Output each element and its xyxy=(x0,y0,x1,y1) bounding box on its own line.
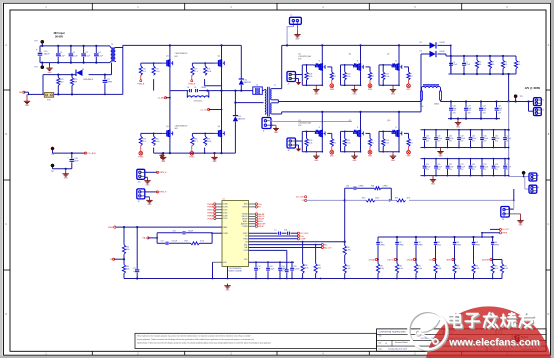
svg-text:PWM_E: PWM_E xyxy=(159,172,167,174)
svg-text:1.00k: 1.00k xyxy=(437,268,441,270)
ground SR1 a xyxy=(313,87,319,95)
svg-text:OPEN: OPEN xyxy=(475,245,481,247)
svg-text:10.0k: 10.0k xyxy=(346,76,350,78)
title block table xyxy=(377,329,547,351)
diode D1 xyxy=(76,69,94,81)
svg-text:BAV21W: BAV21W xyxy=(244,81,251,84)
connector J1 under T1 xyxy=(262,118,274,133)
svg-text:CSD16321Q5A: CSD16321Q5A xyxy=(298,55,311,58)
net label PWM_A xyxy=(137,75,145,85)
svg-text:CONFIDENTIAL NDA REQUIRED: CONFIDENTIAL NDA REQUIRED xyxy=(379,331,407,334)
capacitor C53 100pF xyxy=(266,262,274,278)
capacitor C15 680uF xyxy=(36,46,51,63)
svg-text:J5: J5 xyxy=(290,15,292,17)
ground input section xyxy=(46,63,52,74)
svg-text:SRD: SRD xyxy=(330,156,335,158)
svg-text:GND: GND xyxy=(25,105,30,107)
svg-text:PWM_A: PWM_A xyxy=(137,82,145,85)
wire SR row1 drain rail xyxy=(282,44,430,46)
wire J1 run right xyxy=(273,121,353,123)
wire VDD caps feed xyxy=(249,261,295,263)
svg-text:J8: J8 xyxy=(288,150,290,152)
wire snubber to output rail xyxy=(508,74,510,103)
ground J11 xyxy=(517,214,523,227)
resistor R30 13.3k xyxy=(345,198,392,202)
svg-text:TP5: TP5 xyxy=(520,96,523,98)
wire aux bottom xyxy=(53,168,72,170)
capacitor bank row B C44-C51 xyxy=(421,129,512,149)
svg-text:10.0k: 10.0k xyxy=(207,141,211,143)
disclaimer text box xyxy=(135,333,377,348)
connector J2 output xyxy=(529,98,544,112)
svg-text:10.0k: 10.0k xyxy=(418,268,422,270)
watermark mascot logo xyxy=(408,306,552,363)
svg-text:J10: J10 xyxy=(138,181,141,183)
svg-text:VREF: VREF xyxy=(108,227,114,229)
svg-text:10.0k: 10.0k xyxy=(380,268,384,270)
svg-text:OPEN: OPEN xyxy=(359,185,365,187)
svg-text:36-60V: 36-60V xyxy=(55,35,63,38)
svg-text:10.0k: 10.0k xyxy=(308,142,312,144)
svg-text:C57: C57 xyxy=(161,241,164,243)
svg-text:PWMA: PWMA xyxy=(207,203,214,206)
resistor R76 499 xyxy=(70,75,77,95)
svg-text:C4: C4 xyxy=(98,52,100,54)
wire bridge bottom rail xyxy=(154,152,236,154)
wire EA- with net label xyxy=(249,246,333,249)
capacitor C52 1uF xyxy=(254,262,260,278)
svg-text:www.elecfans.com: www.elecfans.com xyxy=(448,338,540,349)
resistor R4 xyxy=(501,56,507,74)
svg-text:3.2: 3.2 xyxy=(372,142,374,144)
svg-text:C36: C36 xyxy=(346,185,349,187)
svg-text:PWME: PWME xyxy=(207,215,214,217)
wire SS to soft start cap xyxy=(249,250,287,269)
MOSFET Q6 sync rectifier xyxy=(341,45,375,91)
svg-text:OPEN: OPEN xyxy=(380,245,386,247)
ground bridge right xyxy=(211,153,217,163)
wire 12V output rail xyxy=(441,100,533,102)
svg-text:Title: Title xyxy=(379,335,382,338)
svg-text:0.047uF: 0.047uF xyxy=(293,269,299,271)
svg-text:OPEN: OPEN xyxy=(399,245,405,247)
resistor R66 100k xyxy=(122,227,129,260)
svg-text:C24: C24 xyxy=(472,164,475,166)
resistor R75 100 xyxy=(57,75,64,95)
svg-text:1uF: 1uF xyxy=(257,269,260,271)
wire comp run xyxy=(306,199,514,201)
svg-text:US1M: US1M xyxy=(440,42,445,44)
svg-text:100pF: 100pF xyxy=(269,269,274,271)
connector J6 return xyxy=(529,185,539,193)
svg-text:10.0k: 10.0k xyxy=(155,71,159,73)
svg-text:VREF: VREF xyxy=(502,233,508,235)
svg-text:TP7: TP7 xyxy=(51,171,54,173)
svg-text:90.9k: 90.9k xyxy=(304,268,308,270)
svg-text:C20: C20 xyxy=(426,164,429,166)
svg-text:GND: GND xyxy=(295,38,300,40)
MOSFET Q2 with gate network R77 R78 xyxy=(191,45,225,90)
net label SW_AB xyxy=(158,96,171,99)
capacitor C6 4.7uF xyxy=(449,56,457,74)
ground J1 xyxy=(273,125,279,134)
ground J10 xyxy=(144,177,150,186)
svg-text:GND: GND xyxy=(146,185,151,187)
wire T1 pin4 to SR2 rail xyxy=(277,112,282,114)
watermark url text xyxy=(448,338,541,350)
diode D3 xyxy=(420,51,451,58)
resistor R5 xyxy=(514,56,520,74)
svg-text:PWMC: PWMC xyxy=(207,210,214,212)
wire aux top xyxy=(53,152,86,154)
svg-text:BAV21W: BAV21W xyxy=(238,118,245,121)
svg-text:RT: RT xyxy=(245,236,247,238)
wire bridge top rail xyxy=(123,44,242,47)
ground row C xyxy=(430,176,436,186)
wire comp vertical to network xyxy=(344,200,346,245)
svg-text:TP2: TP2 xyxy=(34,66,37,68)
power symbol PGND Q4 xyxy=(189,146,195,159)
watermark text dianzifashaoyou xyxy=(448,313,534,329)
svg-text:GND: GND xyxy=(391,160,396,162)
svg-text:C9: C9 xyxy=(194,87,196,89)
input voltage note xyxy=(53,32,64,38)
wire T1 pin1 to SR rail xyxy=(277,45,282,88)
svg-text:12V_VDD: 12V_VDD xyxy=(296,197,305,199)
svg-text:10.0k: 10.0k xyxy=(207,71,211,73)
resistor R31 49.9 xyxy=(395,198,410,202)
svg-text:PWMF: PWMF xyxy=(207,218,214,220)
svg-text:OPEN: OPEN xyxy=(107,81,113,83)
ground SR1 b xyxy=(351,87,357,95)
connector J10 xyxy=(137,169,158,183)
svg-text:Q6: Q6 xyxy=(349,53,351,55)
svg-text:DCM: DCM xyxy=(244,250,248,252)
svg-text:sw_CD: sw_CD xyxy=(201,109,208,111)
svg-text:470uF: 470uF xyxy=(460,138,465,140)
svg-text:EA_OUT: EA_OUT xyxy=(324,246,332,249)
svg-text:Tuesday, March 26, 2013: Tuesday, March 26, 2013 xyxy=(388,348,407,351)
wire input top rail xyxy=(40,45,110,47)
network column C61/R48 xyxy=(388,237,405,279)
svg-text:12V_AUX: 12V_AUX xyxy=(87,152,96,155)
wire bridge mid rail node A xyxy=(170,90,253,92)
svg-text:D2: D2 xyxy=(420,42,422,44)
svg-text:UVT14124: UVT14124 xyxy=(194,100,203,102)
net label VREF left xyxy=(108,226,116,229)
svg-text:100k: 100k xyxy=(126,249,130,251)
svg-text:C26: C26 xyxy=(495,164,498,166)
net label PWM_E xyxy=(156,171,167,174)
svg-text:GND: GND xyxy=(353,93,358,95)
wire bottom ground rail xyxy=(124,277,502,279)
svg-text:OUTF: OUTF xyxy=(223,218,228,220)
capacitor C51 1uF xyxy=(133,268,140,273)
ground aux xyxy=(63,169,69,180)
svg-text:J1: J1 xyxy=(263,131,265,133)
svg-text:470uF: 470uF xyxy=(495,138,500,140)
svg-text:TP6: TP6 xyxy=(51,154,54,156)
svg-text:680uF: 680uF xyxy=(44,54,50,56)
svg-text:470uF: 470uF xyxy=(472,138,477,140)
svg-text:16.1k: 16.1k xyxy=(437,245,441,247)
svg-text:GND: GND xyxy=(431,183,436,185)
capacitor C40 xyxy=(449,102,457,119)
svg-text:J6: J6 xyxy=(537,187,539,189)
svg-text:C21: C21 xyxy=(437,164,440,166)
svg-text:R30: R30 xyxy=(362,198,365,200)
ground bridge left xyxy=(160,153,166,163)
svg-text:T2: T2 xyxy=(256,84,258,86)
svg-text:300kHz 1500kHz: 300kHz 1500kHz xyxy=(228,271,242,273)
capacitor C54 1000pF xyxy=(278,262,287,278)
svg-text:5%: 5% xyxy=(479,64,482,66)
resistor R3 xyxy=(488,56,494,74)
svg-text:C1: C1 xyxy=(60,52,62,54)
MOSFET Q5 sync rectifier xyxy=(298,45,336,91)
test point TP3 aux xyxy=(51,147,54,156)
net label sw_CD xyxy=(201,108,223,111)
capacitor bank row C C20-C27 xyxy=(421,158,512,177)
capacitor C7 4.7uF xyxy=(462,56,470,74)
connector J3 output xyxy=(534,108,544,116)
network column C64/R55 xyxy=(482,237,499,279)
svg-text:51.1: 51.1 xyxy=(194,71,198,73)
svg-text:VREF: VREF xyxy=(223,227,228,229)
svg-text:C45: C45 xyxy=(483,135,486,137)
capacitor C4 2.2uF xyxy=(94,46,104,63)
wire row A bottom rail xyxy=(448,118,500,120)
svg-text:1.96k: 1.96k xyxy=(346,250,350,252)
ground SR2 b xyxy=(351,154,357,162)
wire snubber bank top rail xyxy=(449,45,517,75)
svg-text:Q2: Q2 xyxy=(218,56,221,58)
connector J9 xyxy=(137,189,158,203)
svg-text:DELAB: DELAB xyxy=(407,258,414,261)
net label PWM_B xyxy=(188,75,196,85)
svg-text:OUTC: OUTC xyxy=(223,210,229,212)
svg-text:PWM_F: PWM_F xyxy=(159,192,167,194)
output inductor L1 xyxy=(420,85,441,108)
svg-text:4.7uF: 4.7uF xyxy=(453,64,457,66)
net label CS upper xyxy=(301,199,306,202)
svg-text:SYNC: SYNC xyxy=(243,233,248,235)
wire node B to transformer xyxy=(207,91,263,104)
svg-text:GND: GND xyxy=(274,132,279,134)
svg-text:Q10: Q10 xyxy=(387,120,390,122)
network column R49/R51 xyxy=(429,237,442,279)
ground row A xyxy=(455,119,461,129)
svg-text:GND: GND xyxy=(391,93,396,95)
svg-text:100k: 100k xyxy=(126,269,130,271)
Texas Instruments logo xyxy=(514,335,536,343)
MOSFET Q1 with gate network R70 R71 xyxy=(139,45,188,90)
svg-text:Q1: Q1 xyxy=(166,56,169,58)
connector J4 return xyxy=(529,173,539,181)
main transformer T1 xyxy=(264,85,277,116)
svg-text:56824: 56824 xyxy=(434,103,439,105)
svg-text:DELAB: DELAB xyxy=(369,258,376,261)
svg-text:1000pF: 1000pF xyxy=(281,269,287,271)
svg-text:12V @ 400W: 12V @ 400W xyxy=(525,86,541,90)
svg-text:RSUM: RSUM xyxy=(258,226,264,228)
svg-text:1.54k: 1.54k xyxy=(346,268,350,270)
connector J7 SR row1 xyxy=(287,72,302,86)
net label PWM_F xyxy=(156,191,167,194)
svg-text:2.2uF: 2.2uF xyxy=(60,56,66,58)
resistor R35 1.96k column xyxy=(343,246,351,280)
svg-text:GND: GND xyxy=(314,160,319,162)
svg-text:470uF: 470uF xyxy=(472,167,477,169)
svg-text:C42: C42 xyxy=(449,135,452,137)
svg-text:3.2: 3.2 xyxy=(334,142,336,144)
svg-text:GND: GND xyxy=(213,161,218,163)
svg-text:OPEN: OPEN xyxy=(418,245,424,247)
svg-text:SRC: SRC xyxy=(407,89,412,91)
svg-text:J4: J4 xyxy=(537,175,539,177)
svg-text:C8: C8 xyxy=(187,87,189,89)
svg-text:470uF: 470uF xyxy=(437,167,442,169)
svg-text:PWM_B: PWM_B xyxy=(188,83,196,85)
svg-text:470uF: 470uF xyxy=(483,138,488,140)
svg-text:EA+: EA+ xyxy=(244,243,247,246)
ground 48V sense xyxy=(24,94,30,107)
svg-text:12V_VDD: 12V_VDD xyxy=(300,233,309,235)
svg-text:C44: C44 xyxy=(472,135,475,137)
svg-text:10.0k: 10.0k xyxy=(385,142,389,144)
svg-text:Size: Size xyxy=(379,342,382,344)
ground row B xyxy=(437,148,443,158)
wire network top rail xyxy=(378,236,494,238)
wire SR2 rail to D3 xyxy=(421,54,430,112)
network column C60/R46 xyxy=(369,237,385,279)
IC ground pin xyxy=(227,267,229,279)
svg-text:C2: C2 xyxy=(73,52,75,54)
MOSFET Q10 sync rectifier xyxy=(379,112,413,158)
svg-text:100pF: 100pF xyxy=(188,231,193,233)
svg-text:2.2uF: 2.2uF xyxy=(85,56,91,58)
svg-text:C23: C23 xyxy=(460,164,463,166)
svg-text:T5: T5 xyxy=(111,44,113,46)
svg-text:Q9: Q9 xyxy=(349,120,351,122)
svg-text:C22: C22 xyxy=(449,164,452,166)
wire choke output down xyxy=(122,48,124,95)
svg-text:COMP: COMP xyxy=(300,239,306,241)
net label 12V_VDD xyxy=(296,196,307,199)
MOSFET Q8 sync rectifier xyxy=(298,112,336,158)
resistor R32 90.9k xyxy=(301,242,309,279)
svg-text:ADEL: ADEL xyxy=(446,258,451,261)
current transformer T2 xyxy=(253,84,264,94)
wire T1 center taps to rail xyxy=(277,100,282,103)
svg-text:C46: C46 xyxy=(495,135,498,137)
svg-text:100: 100 xyxy=(60,81,63,83)
svg-text:CS_RLY: CS_RLY xyxy=(502,229,510,231)
svg-text:3.2: 3.2 xyxy=(372,76,374,78)
svg-text:DELCD: DELCD xyxy=(388,259,395,261)
svg-text:L2: L2 xyxy=(275,230,277,232)
connector J11 box xyxy=(501,207,521,222)
svg-text:Q4: Q4 xyxy=(218,126,221,128)
IC pin VDD name xyxy=(244,259,248,261)
net label Rt xyxy=(110,258,124,261)
svg-text:J3: J3 xyxy=(542,110,544,112)
wire vertical from VREF node xyxy=(136,227,138,278)
svg-text:470uF: 470uF xyxy=(483,167,488,169)
svg-text:C3: C3 xyxy=(85,52,87,54)
svg-text:SS/EN: SS/EN xyxy=(242,207,248,209)
svg-text:10.0k: 10.0k xyxy=(494,268,498,270)
svg-text:10.0k: 10.0k xyxy=(155,141,159,143)
svg-text:470uF: 470uF xyxy=(426,138,431,140)
svg-text:R38: R38 xyxy=(371,185,374,187)
svg-text:C43: C43 xyxy=(460,135,463,137)
svg-text:T1: T1 xyxy=(274,85,276,87)
wire shunt to bias xyxy=(54,93,123,95)
svg-text:470uF: 470uF xyxy=(437,138,442,140)
svg-text:3.2: 3.2 xyxy=(334,76,336,78)
ground SR1 c xyxy=(390,87,396,95)
svg-text:13.3k: 13.3k xyxy=(375,198,379,200)
svg-text:GND: GND xyxy=(64,178,69,180)
svg-text:US1M: US1M xyxy=(440,51,445,53)
svg-text:51.1: 51.1 xyxy=(143,71,147,73)
svg-text:470uF: 470uF xyxy=(460,167,465,169)
svg-text:51.1: 51.1 xyxy=(194,141,198,143)
wire input bottom rail xyxy=(40,62,110,64)
net label EA in xyxy=(143,237,150,240)
svg-text:5%: 5% xyxy=(492,64,495,66)
svg-text:GND: GND xyxy=(226,290,231,292)
svg-text:J11: J11 xyxy=(502,219,505,221)
MOSFET Q4 with gate network R81 R82 xyxy=(191,122,225,153)
svg-text:1N4148W-F: 1N4148W-F xyxy=(83,79,94,81)
svg-text:ADELEF: ADELEF xyxy=(482,258,490,261)
shunt resistor R73 xyxy=(44,93,53,102)
svg-text:5%: 5% xyxy=(518,64,521,66)
MOSFET Q7 sync rectifier xyxy=(379,45,413,91)
svg-text:GND: GND xyxy=(161,161,166,163)
svg-text:GND: GND xyxy=(314,93,319,95)
svg-text:49.9: 49.9 xyxy=(407,198,410,200)
ground SR2 a xyxy=(313,154,319,162)
capacitor C43 xyxy=(495,102,503,119)
svg-text:GND: GND xyxy=(353,160,358,162)
diode D14 xyxy=(239,45,251,90)
test point TP1 xyxy=(34,40,44,46)
svg-text:J2: J2 xyxy=(542,100,544,102)
svg-text:C40: C40 xyxy=(426,135,429,137)
capacitor C41 xyxy=(464,102,472,119)
network column R53/R54 xyxy=(472,237,481,279)
svg-text:PGND: PGND xyxy=(189,157,195,159)
svg-text:10.0k: 10.0k xyxy=(385,76,389,78)
connector J5 xyxy=(290,15,302,31)
power symbol PGND Q3 xyxy=(138,146,144,159)
svg-text:51.1: 51.1 xyxy=(143,141,147,143)
svg-text:3.2: 3.2 xyxy=(410,76,412,78)
wire secondary center rail to L1 xyxy=(282,101,422,103)
net labels PWMA-PWMF xyxy=(207,203,216,221)
connector J11 bias xyxy=(508,189,515,209)
svg-text:10.0k: 10.0k xyxy=(308,76,312,78)
IC right delay pins with net labels xyxy=(241,213,266,228)
svg-text:PWMD: PWMD xyxy=(207,212,214,214)
svg-text:10.0k: 10.0k xyxy=(504,268,508,270)
svg-text:OPEN: OPEN xyxy=(201,87,207,89)
svg-text:10.0k: 10.0k xyxy=(200,241,204,243)
capacitor C55 0.047uF xyxy=(290,262,299,278)
